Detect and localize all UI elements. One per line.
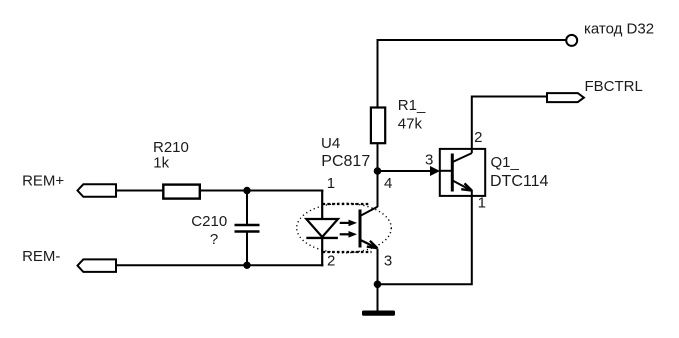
node C junction: [374, 281, 382, 289]
svg-text:3: 3: [425, 152, 433, 169]
node pin4 junction: [374, 167, 382, 175]
svg-text:REM+: REM+: [22, 172, 64, 189]
port FBCTRL: [547, 93, 584, 102]
wire REM- to node B: [116, 264, 247, 266]
wire node C to Q1 emitter: [378, 190, 472, 284]
node A junction: [243, 187, 250, 194]
svg-text:R1_: R1_: [398, 97, 426, 114]
phototransistor of U4: [360, 207, 378, 248]
svg-text:47k: 47k: [398, 116, 423, 133]
wire LED to U4 pin2: [321, 238, 323, 266]
svg-text:4: 4: [384, 175, 392, 192]
resistor R1_: [371, 108, 385, 144]
svg-text:PC817: PC817: [321, 153, 370, 170]
wire capacitor bottom stub: [246, 232, 248, 265]
transistor Q1 box: [440, 149, 485, 196]
opto package dashed bottom line: [323, 251, 372, 253]
pin 4 base drive arrow to Q1: [378, 166, 441, 176]
svg-text:DTC114: DTC114: [490, 173, 548, 190]
wire R210 to node A: [201, 190, 247, 192]
resistor R210: [163, 185, 200, 199]
light arrow 2: [340, 231, 357, 238]
port REM+: [78, 184, 117, 197]
wire U4 pin1 down to LED: [321, 190, 323, 221]
svg-text:Q1_: Q1_: [491, 154, 520, 171]
opto package ellipse U4: [297, 203, 392, 253]
ground: [362, 311, 395, 316]
svg-text:3: 3: [384, 252, 392, 269]
opto package dashed top line: [323, 203, 371, 205]
terminal circle katod D32: [566, 35, 577, 46]
svg-text:FBCTRL: FBCTRL: [585, 78, 643, 95]
wire node B to U4 pin2: [247, 264, 323, 266]
light arrow 1: [340, 220, 357, 227]
svg-text:REM-: REM-: [22, 248, 60, 265]
svg-text:1: 1: [327, 175, 335, 192]
wire katod D32: [378, 40, 567, 207]
node B junction: [243, 262, 250, 269]
svg-text:U4: U4: [321, 135, 340, 152]
svg-text:2: 2: [474, 129, 482, 146]
svg-text:2: 2: [327, 252, 335, 269]
wire U4 pin3 down to ground: [377, 249, 379, 311]
transistor Q1 internals: [440, 153, 472, 191]
wire REM+ to R210: [116, 190, 163, 192]
port REM-: [78, 259, 117, 272]
LED of U4: [306, 219, 338, 238]
wire capacitor top stub: [246, 191, 248, 225]
svg-text:?: ?: [210, 231, 218, 248]
svg-text:1: 1: [478, 195, 486, 212]
wire node A to U4 pin1: [247, 190, 323, 192]
svg-text:C210: C210: [191, 213, 227, 230]
capacitor C210: [235, 225, 260, 232]
svg-text:1k: 1k: [153, 154, 169, 171]
svg-text:катод D32: катод D32: [584, 21, 654, 38]
wire Q1 collector to FBCTRL: [472, 97, 547, 154]
